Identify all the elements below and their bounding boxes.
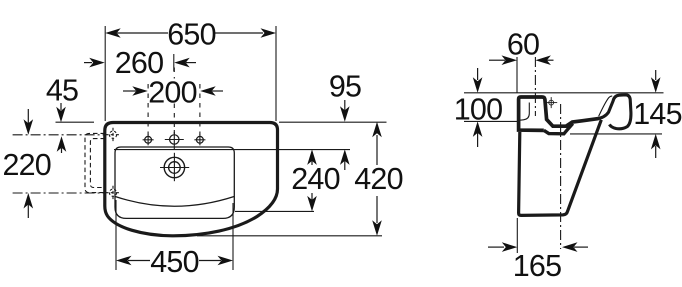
side profile outer outline (tap deck and basin bottom)	[519, 97, 599, 130]
svg-text:165: 165	[513, 249, 562, 283]
fixing hole bottom-left (dashed)	[109, 189, 116, 196]
inner basin rim (plan view)	[115, 147, 234, 218]
blade inner line (side)	[599, 96, 613, 117]
svg-text:145: 145	[633, 97, 682, 131]
side view: 165 left extension line	[516, 218, 518, 253]
node: centerline fixing holes top (dash-dot)	[13, 134, 106, 136]
wire: extension line basin top ref (95 bottom / 240 top)	[114, 149, 350, 151]
faucet hole left	[145, 136, 152, 143]
svg-text:220: 220	[2, 148, 51, 182]
drain inner circle	[169, 162, 181, 174]
fixing hole top-left (dashed)	[109, 131, 116, 138]
dimension 100	[454, 68, 503, 147]
dimension 420	[354, 122, 403, 236]
wire: 650 left extension line	[104, 26, 106, 121]
dimension 260	[84, 46, 196, 80]
dimension 165	[488, 242, 588, 283]
drain crosshair	[160, 167, 189, 169]
wire: 450 left extension line	[115, 200, 117, 270]
side view: 60 left extension line	[516, 57, 518, 93]
wire: faucet hole right leader (dashed)	[199, 84, 201, 135]
svg-text:60: 60	[507, 27, 539, 61]
dimension 220	[2, 109, 51, 218]
deck inner line (side)	[520, 103, 529, 121]
dimension 60	[489, 27, 554, 65]
node: drain centerline (dash-dot, side)	[560, 104, 562, 249]
svg-text:95: 95	[329, 70, 361, 104]
faucet hole center	[170, 135, 179, 144]
svg-text:200: 200	[148, 76, 197, 110]
wire: 650 right extension line	[275, 26, 277, 121]
node: centerline fixing holes bottom (dash-dot)	[13, 192, 106, 194]
node: faucet centerline (dash-dot, side)	[534, 57, 536, 116]
wire: extension line 240 bottom ref	[235, 210, 314, 212]
dimension 45	[46, 73, 78, 153]
wire: faucet hole left leader (dashed)	[147, 84, 149, 135]
dimension 450	[116, 245, 233, 279]
side view: 145 bottom extension line	[570, 133, 662, 135]
hidden semi-pedestal outline inner (dashed, plan)	[90, 139, 105, 188]
faucet hole right	[197, 136, 204, 143]
dimension 145	[633, 70, 682, 158]
dimension 650	[105, 18, 276, 52]
dimension 240	[291, 149, 340, 211]
dimension 95	[329, 70, 361, 171]
svg-text:450: 450	[150, 245, 199, 279]
svg-text:650: 650	[167, 18, 216, 52]
drill marker	[549, 100, 554, 105]
pedestal outline (side)	[519, 120, 602, 216]
wire: faucet hole center leader (dashed)	[173, 68, 175, 79]
hidden semi-pedestal outline outer (dashed, plan)	[85, 133, 105, 192]
svg-text:420: 420	[354, 162, 403, 196]
side view: 100 bottom extension line	[464, 120, 518, 122]
svg-text:100: 100	[454, 92, 503, 126]
side view: shared top extension line (100/145 top ref)	[464, 92, 664, 94]
wire: 450 right extension line	[232, 203, 234, 270]
svg-text:45: 45	[46, 73, 78, 107]
wire: extension line 420 bottom ref	[197, 235, 382, 237]
washbasin outer outline (plan view)	[105, 123, 278, 236]
side profile underside / drain boss outline	[544, 124, 573, 134]
drain outer circle	[164, 157, 184, 177]
svg-text:240: 240	[291, 162, 340, 196]
wire: 260 right extension tick	[173, 54, 175, 72]
basin front sag curve (plan view)	[115, 197, 234, 207]
wire: extension line top edge plan (420/95 top ref)	[279, 121, 387, 123]
side profile front rim blade	[596, 95, 631, 129]
wire: 45 top edge extension segment	[56, 121, 95, 123]
dimension 200	[123, 76, 223, 110]
